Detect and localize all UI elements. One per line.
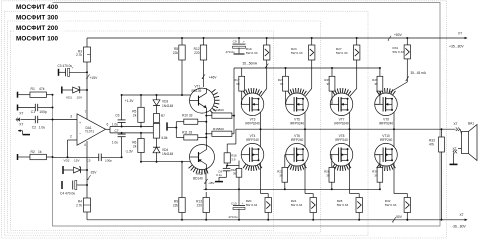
svg-text:2.7k: 2.7k: [76, 53, 82, 57]
svg-text:C3 470.0u: C3 470.0u: [58, 64, 73, 68]
svg-text:IRFP9240: IRFP9240: [379, 122, 394, 126]
svg-text:1N4148: 1N4148: [162, 152, 173, 156]
svg-text:15V: 15V: [74, 158, 80, 162]
svg-text:39: 39: [279, 173, 283, 177]
svg-text:1.0u: 1.0u: [112, 122, 118, 126]
svg-text:-36...80V: -36...80V: [452, 225, 466, 229]
svg-text:R2: R2: [31, 150, 35, 154]
svg-text:5W 0.33: 5W 0.33: [246, 203, 258, 207]
svg-text:3.9: 3.9: [231, 157, 236, 161]
svg-text:XT: XT: [458, 32, 462, 36]
svg-text:IRFP240: IRFP240: [291, 138, 304, 142]
svg-text:МОСФИТ 200: МОСФИТ 200: [16, 25, 59, 32]
svg-text:22k: 22k: [173, 51, 179, 55]
svg-text:5W 0.33: 5W 0.33: [336, 51, 348, 55]
svg-text:XT: XT: [19, 111, 23, 115]
svg-text:-15V: -15V: [90, 170, 98, 174]
svg-text:IRFP240: IRFP240: [335, 138, 348, 142]
svg-text:+15V: +15V: [90, 76, 99, 80]
svg-text:+35...80V: +35...80V: [449, 44, 464, 48]
svg-text:VD2: VD2: [64, 158, 70, 162]
svg-text:39: 39: [233, 172, 237, 176]
svg-text:39: 39: [326, 173, 330, 177]
svg-text:XT: XT: [454, 122, 458, 126]
svg-text:-48V: -48V: [208, 181, 215, 185]
svg-text:XT: XT: [460, 213, 464, 217]
svg-text:C6: C6: [115, 113, 119, 117]
svg-text:−: −: [79, 132, 81, 136]
svg-text:4: 4: [84, 143, 86, 147]
svg-text:BD140: BD140: [193, 176, 203, 180]
svg-text:0.1u: 0.1u: [216, 173, 222, 177]
svg-text:7: 7: [85, 110, 87, 114]
svg-text:+: +: [79, 121, 81, 125]
svg-text:C4 470.0u: C4 470.0u: [60, 192, 75, 196]
svg-text:C7: C7: [115, 129, 119, 133]
svg-text:220: 220: [194, 51, 200, 55]
svg-text:100p: 100p: [105, 159, 112, 163]
svg-text:2.7k: 2.7k: [76, 203, 82, 207]
svg-text:C1: C1: [31, 110, 35, 114]
svg-text:C2: C2: [32, 126, 36, 130]
svg-text:-1.3V: -1.3V: [125, 150, 134, 154]
svg-text:22k: 22k: [173, 203, 179, 207]
svg-text:-50V: -50V: [395, 215, 403, 219]
svg-text:47k: 47k: [39, 87, 45, 91]
svg-text:5W 0.33: 5W 0.33: [385, 203, 397, 207]
svg-text:R1: R1: [31, 87, 35, 91]
svg-text:1k: 1k: [38, 150, 42, 154]
svg-text:6.8k: 6.8k: [162, 136, 168, 140]
svg-text:6: 6: [107, 123, 109, 127]
svg-text:39: 39: [374, 173, 378, 177]
svg-text:XT: XT: [453, 147, 457, 151]
svg-text:+: +: [243, 40, 245, 44]
svg-text:39: 39: [374, 82, 378, 86]
svg-text:5W 0.33: 5W 0.33: [291, 51, 303, 55]
svg-text:2: 2: [70, 134, 72, 138]
svg-text:5W 0.33: 5W 0.33: [246, 51, 258, 55]
svg-text:IRFP9240: IRFP9240: [290, 122, 305, 126]
svg-text:МОСФИТ 300: МОСФИТ 300: [16, 15, 59, 22]
svg-text:R7: R7: [161, 114, 165, 118]
svg-text:35...50mA: 35...50mA: [243, 62, 258, 66]
svg-text:2k: 2k: [133, 144, 137, 148]
svg-text:3: 3: [70, 114, 72, 118]
svg-text:5W 0.33: 5W 0.33: [291, 203, 303, 207]
svg-text:+50V: +50V: [394, 33, 403, 37]
svg-text:+: +: [242, 201, 244, 205]
svg-text:+1.3V: +1.3V: [125, 99, 135, 103]
svg-text:IRFP240: IRFP240: [246, 138, 259, 142]
svg-text:C10: C10: [231, 202, 237, 206]
svg-text:1N4148: 1N4148: [162, 104, 173, 108]
svg-text:VD1: VD1: [66, 95, 72, 99]
svg-text:BD139: BD139: [192, 89, 202, 93]
svg-text:1.0u: 1.0u: [112, 140, 118, 144]
svg-text:39: 39: [326, 82, 330, 86]
svg-text:39: 39: [280, 82, 284, 86]
svg-text:R11 33: R11 33: [182, 131, 192, 135]
svg-text:220: 220: [197, 203, 203, 207]
svg-text:IRFP9240: IRFP9240: [245, 122, 260, 126]
svg-text:R10 33: R10 33: [182, 114, 193, 118]
svg-text:15V: 15V: [77, 95, 83, 99]
svg-text:5W 0.33: 5W 0.33: [393, 50, 405, 54]
svg-text:5W 0.33: 5W 0.33: [337, 203, 349, 207]
svg-text:470.0u: 470.0u: [226, 50, 236, 54]
svg-text:2k: 2k: [133, 113, 137, 117]
svg-text:1.0u: 1.0u: [39, 126, 46, 130]
svg-text:39: 39: [236, 82, 240, 86]
svg-text:R14820: R14820: [213, 108, 224, 112]
svg-text:47k: 47k: [429, 142, 435, 146]
svg-text:+46V: +46V: [209, 75, 218, 79]
svg-text:IRFP9240: IRFP9240: [334, 122, 349, 126]
svg-text:+: +: [72, 66, 74, 70]
svg-text:IRFP240: IRFP240: [380, 138, 393, 142]
svg-text:МОСФИТ 100: МОСФИТ 100: [16, 36, 59, 43]
svg-text:XT: XT: [19, 122, 23, 126]
svg-text:МОСФИТ 400: МОСФИТ 400: [16, 4, 59, 11]
svg-text:TL071: TL071: [85, 130, 94, 134]
svg-text:470.0u: 470.0u: [228, 215, 238, 219]
svg-text:35...45 mA: 35...45 mA: [411, 71, 427, 75]
svg-text:R15820: R15820: [213, 127, 224, 131]
svg-text:C9: C9: [233, 40, 237, 44]
svg-text:100p: 100p: [39, 110, 47, 114]
svg-text:BA1: BA1: [468, 121, 474, 125]
